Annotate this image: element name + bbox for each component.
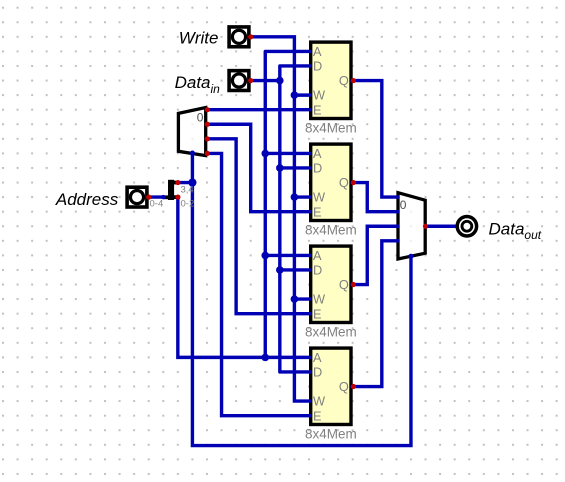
- svg-text:A: A: [313, 350, 322, 365]
- svg-text:W: W: [313, 292, 326, 307]
- svg-text:E: E: [313, 204, 322, 219]
- svg-text:0-2: 0-2: [181, 198, 195, 209]
- svg-text:8x4Mem: 8x4Mem: [305, 223, 357, 238]
- svg-text:8x4Mem: 8x4Mem: [305, 325, 357, 340]
- svg-text:0: 0: [400, 198, 407, 212]
- svg-text:A: A: [313, 248, 322, 263]
- svg-text:D: D: [313, 59, 322, 74]
- svg-text:Write: Write: [179, 28, 219, 47]
- svg-text:0-4: 0-4: [150, 198, 164, 209]
- svg-text:0: 0: [197, 110, 204, 124]
- svg-text:Q: Q: [339, 277, 349, 292]
- svg-text:8x4Mem: 8x4Mem: [305, 427, 357, 442]
- svg-text:8x4Mem: 8x4Mem: [305, 121, 357, 136]
- svg-text:D: D: [313, 161, 322, 176]
- svg-text:Q: Q: [339, 73, 349, 88]
- svg-text:E: E: [313, 102, 322, 117]
- svg-text:E: E: [313, 408, 322, 423]
- svg-text:Address: Address: [55, 190, 119, 209]
- svg-text:E: E: [313, 306, 322, 321]
- svg-text:D: D: [313, 263, 322, 278]
- svg-text:W: W: [313, 394, 326, 409]
- svg-text:Q: Q: [339, 379, 349, 394]
- svg-text:3,4: 3,4: [181, 185, 194, 196]
- svg-text:Q: Q: [339, 175, 349, 190]
- svg-text:A: A: [313, 146, 322, 161]
- svg-text:W: W: [313, 190, 326, 205]
- svg-text:A: A: [313, 44, 322, 59]
- svg-text:D: D: [313, 365, 322, 380]
- svg-text:W: W: [313, 88, 326, 103]
